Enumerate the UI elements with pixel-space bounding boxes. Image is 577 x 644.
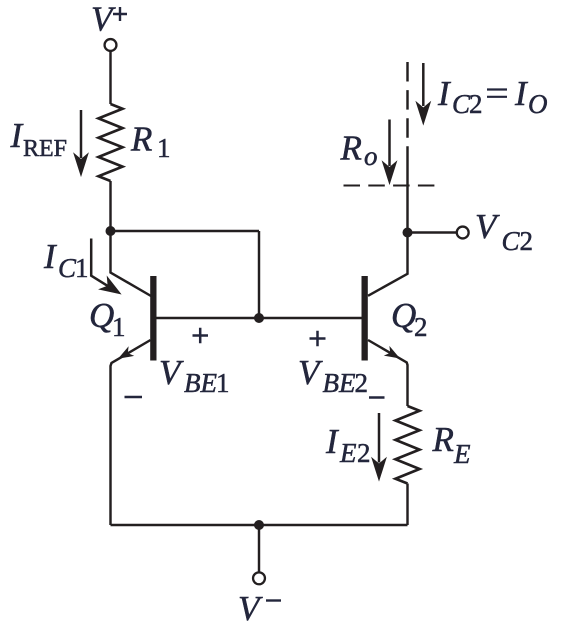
- svg-text:1: 1: [112, 312, 126, 342]
- transistor Q1 base bar: [150, 276, 156, 361]
- wire Q2 collector lead: [368, 165, 408, 296]
- svg-text:2: 2: [357, 438, 371, 468]
- wire Q2 emitter lead: [368, 340, 408, 406]
- dashed Ro cut line: [344, 184, 438, 186]
- transistor Q2 base bar: [362, 276, 368, 361]
- svg-text:V: V: [238, 589, 263, 628]
- node D (bottom rail / V-): [254, 520, 264, 530]
- terminal V+: [105, 39, 117, 51]
- dashed collector continuation: [406, 62, 408, 165]
- svg-text:E: E: [453, 439, 471, 469]
- Q2 emitter arrowhead: [384, 346, 403, 363]
- wire down to base node B: [258, 231, 260, 318]
- svg-text:2: 2: [520, 226, 534, 256]
- current arrow IREF: [76, 110, 87, 173]
- current arrow IC1: [91, 239, 121, 298]
- svg-text:V: V: [298, 353, 323, 392]
- svg-text:I: I: [437, 74, 452, 113]
- node C (Q2 collector / VC2): [403, 228, 413, 238]
- svg-text:REF: REF: [23, 136, 67, 162]
- svg-text:1: 1: [216, 368, 230, 398]
- node A (R1 / bases / Q1 collector): [106, 226, 116, 236]
- wire RE to bottom rail: [406, 484, 408, 526]
- terminal VC2: [457, 227, 469, 239]
- svg-text:Q: Q: [391, 296, 416, 335]
- node B (base junction): [254, 313, 264, 323]
- svg-text:1: 1: [157, 133, 171, 163]
- wire Q1 emitter lead: [111, 340, 151, 525]
- svg-text:Q: Q: [89, 296, 114, 335]
- minus sign VBE1: [125, 396, 143, 399]
- current arrow IE2: [374, 413, 385, 478]
- svg-text:R: R: [340, 129, 362, 168]
- wire bottom rail: [111, 524, 408, 526]
- current arrow IC2: [418, 63, 429, 122]
- svg-text:V: V: [159, 353, 184, 392]
- svg-text:C: C: [502, 226, 521, 256]
- wire V+ terminal to R1: [109, 52, 111, 105]
- wire node A to bases (horizontal): [111, 230, 260, 232]
- svg-text:I: I: [43, 237, 58, 276]
- wire node C to VC2 terminal: [411, 231, 456, 233]
- svg-text:R: R: [432, 420, 454, 459]
- wire V- stub: [258, 525, 260, 572]
- svg-text:2: 2: [414, 312, 428, 342]
- resistor R1: [99, 104, 123, 181]
- svg-text:BE: BE: [323, 368, 356, 398]
- wire Q1 collector lead: [111, 231, 152, 296]
- minus sign VBE2: [369, 396, 385, 399]
- resistance arrow Ro: [384, 120, 395, 182]
- Q1 emitter arrowhead: [115, 346, 134, 363]
- plus sign VBE1: [193, 328, 209, 344]
- svg-text:I: I: [514, 74, 529, 113]
- svg-text:O: O: [528, 89, 548, 119]
- wire base line Q1-Q2: [151, 317, 363, 319]
- svg-text:2: 2: [355, 368, 369, 398]
- svg-text:R: R: [130, 120, 152, 159]
- svg-text:I: I: [325, 422, 340, 461]
- svg-text:2: 2: [469, 89, 483, 119]
- svg-text:BE: BE: [184, 368, 217, 398]
- terminal V-: [253, 572, 265, 584]
- svg-text:V: V: [91, 0, 116, 39]
- svg-text:1: 1: [75, 253, 89, 283]
- resistor RE: [396, 406, 420, 484]
- svg-text:V: V: [475, 207, 500, 246]
- svg-text:o: o: [364, 141, 378, 171]
- wire R1 to node A: [109, 181, 111, 231]
- plus sign VBE2: [310, 331, 326, 347]
- svg-text:E: E: [339, 438, 357, 468]
